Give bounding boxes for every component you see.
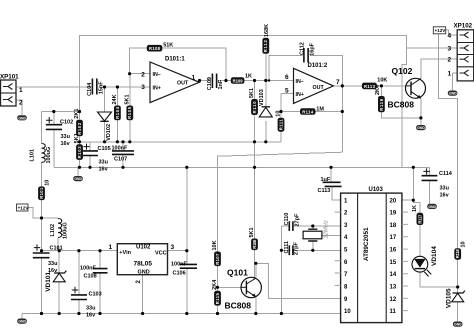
svg-text:3: 3 [141, 84, 145, 91]
wire C103 drop [78, 251, 80, 295]
svg-text:GND: GND [417, 126, 425, 130]
svg-text:100uG: 100uG [46, 147, 52, 164]
node feedback join out1 [224, 79, 227, 82]
svg-text:100nF: 100nF [80, 265, 97, 271]
svg-text:15: 15 [390, 260, 397, 266]
svg-text:GND: GND [454, 323, 462, 327]
svg-text:R104: R104 [115, 106, 120, 119]
capacitor C114 [422, 176, 438, 181]
wire bottom GND rail [22, 313, 341, 315]
capacitor C106 [180, 264, 197, 268]
node opamp1 IN- [128, 72, 131, 75]
svg-text:2K4: 2K4 [212, 279, 218, 290]
wire Q101 emitter [255, 297, 257, 313]
svg-text:2: 2 [19, 100, 23, 107]
svg-text:OUT: OUT [313, 85, 325, 91]
wire C109 to opamp2 IN- [218, 80, 293, 82]
svg-text:1uF: 1uF [321, 177, 331, 183]
svg-text:GND: GND [18, 116, 26, 120]
svg-text:100nF: 100nF [171, 261, 188, 267]
node rail A joints [78, 140, 81, 143]
svg-text:5: 5 [285, 88, 289, 95]
resistor R113 [362, 78, 388, 90]
inductor L102 [58, 219, 62, 238]
svg-text:16pF: 16pF [309, 42, 315, 55]
svg-text:C110: C110 [284, 213, 290, 226]
svg-text:33u: 33u [440, 186, 449, 192]
wire U102 input row [42, 250, 118, 252]
node R114 left [279, 110, 282, 113]
svg-text:L102: L102 [50, 224, 56, 237]
wire R102 R103 chain [79, 112, 81, 120]
capacitor C112 [304, 48, 308, 63]
wire VD105 chain [457, 287, 459, 293]
svg-text:5K1: 5K1 [249, 88, 255, 98]
svg-text:GND: GND [74, 177, 82, 181]
op-amp D101:1 [150, 62, 199, 103]
svg-text:Q101: Q101 [227, 267, 248, 277]
svg-text:C106: C106 [173, 270, 186, 276]
capacitor C113 [323, 182, 342, 186]
resistor R107 [212, 240, 221, 266]
RESISTORS [38, 24, 467, 306]
svg-text:C101: C101 [50, 246, 63, 252]
wire L102 branch [42, 217, 59, 219]
svg-text:U103: U103 [369, 187, 384, 193]
svg-text:27pF: 27pF [293, 242, 299, 255]
capacitor C105 [82, 151, 98, 156]
wire top +5 rail [80, 36, 407, 112]
resistor R104 [112, 94, 121, 120]
svg-text:10: 10 [276, 111, 282, 117]
wire xtal top row to pin3 [281, 225, 340, 227]
wire XP102 pin3 drop [402, 48, 406, 167]
node R112 VD103 top [264, 79, 267, 82]
svg-text:100uG: 100uG [62, 222, 68, 239]
wire R117 LED chain [413, 200, 420, 213]
svg-text:20: 20 [390, 198, 397, 204]
wire opamp2 IN+ [281, 93, 294, 95]
svg-text:16: 16 [390, 248, 397, 254]
wire Q101 base [218, 286, 242, 288]
svg-text:1K: 1K [245, 74, 252, 80]
svg-text:2K4: 2K4 [375, 84, 381, 95]
wire opamp1 out to C109 [199, 80, 211, 82]
svg-text:IN–: IN– [153, 72, 161, 78]
crystal ZQ 12MHz [303, 220, 330, 241]
wire Q102 collector [420, 98, 422, 125]
capacitor C101 [33, 253, 50, 258]
resistor R115 [212, 279, 221, 306]
capacitor labels [48, 42, 453, 318]
wire xtal case to pin4 [322, 235, 341, 237]
node pin20 [412, 199, 415, 202]
svg-text:VD103: VD103 [259, 89, 265, 106]
svg-text:C103: C103 [89, 291, 102, 297]
resistor R105 [125, 94, 134, 120]
wire Q101 collector to U103 pin9 [256, 263, 341, 298]
svg-text:19: 19 [390, 211, 397, 217]
wire C108 drop [99, 251, 101, 269]
wire R110 VD103 R106 vertical [254, 81, 256, 100]
svg-text:U102: U102 [136, 245, 151, 251]
wire +5 riser U102 [186, 167, 188, 250]
svg-text:10K: 10K [212, 240, 218, 250]
svg-text:IN–: IN– [296, 79, 304, 85]
ground XP102 pin1 [448, 91, 458, 96]
capacitor C108 [93, 269, 108, 273]
svg-text:5K1: 5K1 [249, 227, 255, 237]
node Q101 base [216, 286, 219, 289]
svg-text:5K1: 5K1 [74, 133, 80, 143]
svg-text:L101: L101 [30, 149, 36, 162]
CAPACITORS [33, 48, 438, 300]
wire opamp1 IN- [130, 73, 150, 75]
svg-text:R103: R103 [77, 146, 82, 159]
svg-text:12MHz: 12MHz [324, 220, 330, 238]
svg-text:78L05: 78L05 [134, 261, 153, 268]
svg-text:+Vin: +Vin [119, 250, 131, 256]
capacitor C103 [71, 295, 87, 300]
node VD105 top [456, 285, 459, 288]
wire C105 vertical [89, 142, 91, 151]
svg-text:R112: R112 [263, 40, 268, 53]
wire VD102 vertical [104, 87, 106, 112]
svg-text:+12V: +12V [18, 205, 30, 210]
svg-text:14: 14 [390, 272, 397, 278]
svg-text:GND: GND [428, 205, 436, 209]
svg-text:13: 13 [390, 285, 397, 291]
svg-text:R105: R105 [127, 106, 132, 119]
svg-text:R109: R109 [233, 78, 244, 83]
capacitor C107 [112, 151, 134, 155]
svg-text:1: 1 [19, 87, 23, 94]
wire opamp2 out to Q102 base [333, 85, 406, 87]
node Q102 base R116 [380, 84, 383, 87]
wire xtal stubs [312, 226, 314, 229]
GND symbols [17, 91, 462, 327]
svg-text:12: 12 [390, 297, 397, 303]
svg-text:1: 1 [192, 75, 196, 82]
svg-text:VD101: VD101 [45, 272, 52, 292]
wire +12V right rail to R118 [439, 34, 458, 249]
ground bottom rail [17, 319, 27, 324]
IC U103 AT89C2051 [335, 187, 408, 322]
svg-text:R106: R106 [252, 239, 257, 249]
svg-text:C113: C113 [318, 188, 331, 194]
svg-text:1nF: 1nF [218, 79, 224, 89]
svg-text:VD104: VD104 [431, 246, 438, 266]
wire C106 drop [186, 251, 188, 265]
power +12V left [17, 204, 30, 211]
svg-text:BC808: BC808 [225, 301, 252, 311]
wire input after C104 to opamp IN+ [99, 86, 150, 88]
svg-text:XP101: XP101 [0, 74, 19, 81]
svg-text:R114: R114 [302, 109, 314, 114]
resistor R101 [38, 180, 50, 200]
wire R104 vertical [116, 87, 118, 106]
svg-text:GND: GND [18, 320, 26, 324]
node xtal rows [311, 224, 314, 227]
resistor R117 [412, 205, 423, 225]
svg-text:XP102: XP102 [454, 22, 473, 29]
svg-text:17: 17 [390, 235, 397, 241]
zener VD105 [445, 288, 465, 308]
wire +12V top box link [446, 30, 452, 35]
svg-text:+12V: +12V [435, 28, 447, 33]
capacitor C102 [46, 125, 62, 130]
wire input from XP101 pin1 [16, 86, 91, 88]
svg-text:GND: GND [449, 92, 457, 96]
wire rail A [80, 141, 282, 143]
wire xtal bottom row to pin5 [281, 249, 340, 251]
svg-text:33u: 33u [99, 160, 108, 166]
wire C107 vertical [122, 142, 124, 151]
svg-text:33u: 33u [48, 261, 57, 267]
wire C110 C111 chain [280, 226, 282, 314]
node out2 [341, 84, 344, 87]
svg-text:18: 18 [390, 223, 397, 229]
connector XP101 [0, 74, 23, 107]
wire XP102 pin stubs [451, 34, 457, 36]
OP-AMPS [150, 62, 333, 103]
svg-text:C108: C108 [84, 274, 97, 280]
svg-text:C105: C105 [98, 146, 111, 152]
wire U102 gnd pin stub [142, 275, 144, 314]
diode VD103 [259, 89, 272, 117]
svg-text:C111: C111 [284, 241, 290, 254]
svg-text:R102: R102 [77, 122, 82, 135]
svg-text:3: 3 [448, 45, 452, 52]
svg-text:OUT: OUT [177, 81, 189, 87]
ground XP101 [17, 115, 27, 120]
node rail B joints [78, 166, 81, 169]
svg-text:C107: C107 [114, 156, 127, 162]
svg-text:BC808: BC808 [388, 99, 415, 109]
wire R111 vertical [280, 94, 282, 142]
svg-text:GND: GND [138, 270, 150, 276]
svg-text:C109: C109 [207, 77, 213, 90]
svg-text:27pF: 27pF [294, 213, 300, 226]
resistor R114 [300, 106, 324, 114]
svg-text:C104: C104 [87, 82, 93, 96]
unused pin stubs [335, 212, 408, 311]
node R110 top [253, 79, 256, 82]
resistor R111 [276, 111, 285, 132]
svg-text:33u: 33u [86, 305, 95, 311]
capacitor plus signs [34, 117, 430, 293]
svg-text:16v: 16v [440, 193, 450, 199]
wire L101 R101 +12 chain [41, 162, 43, 187]
svg-text:R116: R116 [379, 98, 384, 111]
svg-text:VCC: VCC [155, 251, 167, 257]
node U102 out [185, 249, 188, 252]
wire rail B +5 [54, 166, 430, 168]
svg-text:16v: 16v [61, 141, 71, 147]
resistor R102 [74, 109, 83, 137]
ground VD105 [453, 322, 463, 327]
wire U102 out pin3 [168, 250, 187, 252]
zener VD101 [45, 271, 66, 292]
node Q101 collector [254, 262, 257, 265]
svg-text:24K: 24K [112, 94, 118, 104]
node opamp1 output [198, 79, 201, 82]
svg-text:33u: 33u [61, 134, 70, 140]
wire Q101 collector up [255, 263, 256, 277]
svg-text:IN+: IN+ [153, 86, 161, 92]
node R114 right [341, 110, 344, 113]
svg-text:15nF: 15nF [98, 81, 104, 94]
wire left input node [42, 111, 80, 113]
wire R107 to R115 node [217, 266, 219, 291]
svg-text:16v: 16v [86, 312, 96, 318]
svg-text:5K1: 5K1 [125, 94, 131, 104]
power +12V right [433, 27, 446, 34]
svg-text:168K: 168K [264, 24, 270, 37]
capacitor C110 [289, 221, 293, 231]
svg-text:1: 1 [448, 70, 452, 77]
op-amp D101:2 [294, 68, 334, 103]
resistor R106 [249, 227, 258, 250]
node Q102 collector R116 [419, 116, 422, 119]
wire GND stub rail B [77, 167, 79, 176]
inductor L101 [42, 144, 46, 163]
transistor Q102 [388, 66, 426, 109]
wire R116 branch [380, 86, 382, 96]
resistor R118 [454, 241, 466, 259]
resistor R108 [147, 43, 174, 52]
svg-text:R101: R101 [39, 187, 44, 199]
wire R114 row [281, 111, 342, 113]
svg-text:1: 1 [109, 244, 113, 251]
node +12V left [40, 216, 43, 219]
svg-text:100nF: 100nF [112, 145, 129, 151]
wire R105 vertical [129, 74, 131, 106]
svg-text:3: 3 [171, 244, 175, 251]
node bottom rail joints [40, 312, 43, 315]
capacitor C111 [289, 245, 293, 255]
svg-text:D101:1: D101:1 [165, 57, 185, 63]
svg-text:C114: C114 [439, 171, 453, 177]
svg-text:R117: R117 [417, 214, 422, 224]
svg-text:6: 6 [285, 74, 289, 81]
resistor R112 [262, 24, 269, 54]
resistor R116 [375, 84, 385, 112]
svg-text:VD105: VD105 [445, 288, 452, 308]
resistor R103 [74, 133, 83, 160]
wire R112 VD103 vertical [265, 54, 267, 107]
svg-text:10: 10 [461, 241, 467, 247]
connector XP102 [448, 22, 474, 80]
transistor Q101 [225, 267, 262, 310]
wire U103 pin20 to rail B [402, 167, 413, 200]
node U102 input row [40, 249, 43, 252]
svg-text:C112: C112 [299, 42, 305, 55]
svg-text:10: 10 [344, 309, 351, 315]
wire feedback C112 opamp2 [269, 56, 302, 81]
wire out2 down to rail C [218, 86, 343, 252]
resistor R110 [249, 88, 258, 115]
wire C113 chain [330, 167, 332, 182]
wire C114 drop [429, 167, 431, 175]
svg-text:R108: R108 [149, 46, 161, 51]
diode VD102 [98, 112, 112, 141]
svg-text:7: 7 [336, 79, 340, 86]
LED VD104 [412, 246, 438, 277]
svg-text:1M: 1M [316, 106, 324, 112]
svg-text:Q102: Q102 [392, 66, 413, 76]
node left input [52, 110, 55, 113]
svg-text:2: 2 [141, 71, 145, 78]
wire +12V box link [28, 208, 42, 219]
svg-text:C102: C102 [60, 120, 73, 126]
svg-text:10: 10 [45, 180, 51, 186]
svg-text:51K: 51K [163, 43, 173, 49]
svg-text:IN+: IN+ [296, 92, 304, 98]
svg-text:R111: R111 [278, 119, 283, 131]
wire feedback opamp1 [130, 48, 226, 80]
svg-text:4: 4 [448, 32, 452, 39]
svg-text:D101:2: D101:2 [308, 63, 328, 69]
svg-text:1K: 1K [412, 205, 418, 212]
svg-text:10K: 10K [377, 78, 387, 84]
svg-text:16v: 16v [99, 166, 109, 172]
IC U102 78L05 [109, 244, 175, 284]
wire C101 drop [41, 251, 43, 253]
ground C114 [427, 204, 437, 209]
svg-text:2: 2 [448, 57, 452, 64]
svg-text:R110: R110 [252, 101, 257, 114]
svg-text:2K1: 2K1 [74, 109, 80, 119]
capacitor C104 [92, 79, 96, 95]
svg-text:11: 11 [390, 309, 397, 315]
svg-text:R107: R107 [215, 253, 220, 265]
ground rail B left [73, 176, 83, 181]
svg-text:AT89C2051: AT89C2051 [363, 227, 370, 261]
capacitor C109 [212, 74, 216, 89]
svg-text:R118: R118 [455, 249, 460, 259]
node input top [103, 85, 106, 88]
wire Q102 emitter to XP102 pin2 [421, 59, 451, 78]
ground Q102 collector [416, 125, 426, 130]
resistor R109 [231, 74, 252, 84]
wire XP101 pin2 to gnd [16, 100, 22, 115]
wire C102 drop [53, 112, 55, 125]
svg-text:VD102: VD102 [106, 124, 112, 141]
wire VD101 drop [58, 251, 60, 273]
svg-text:R115: R115 [215, 293, 220, 305]
